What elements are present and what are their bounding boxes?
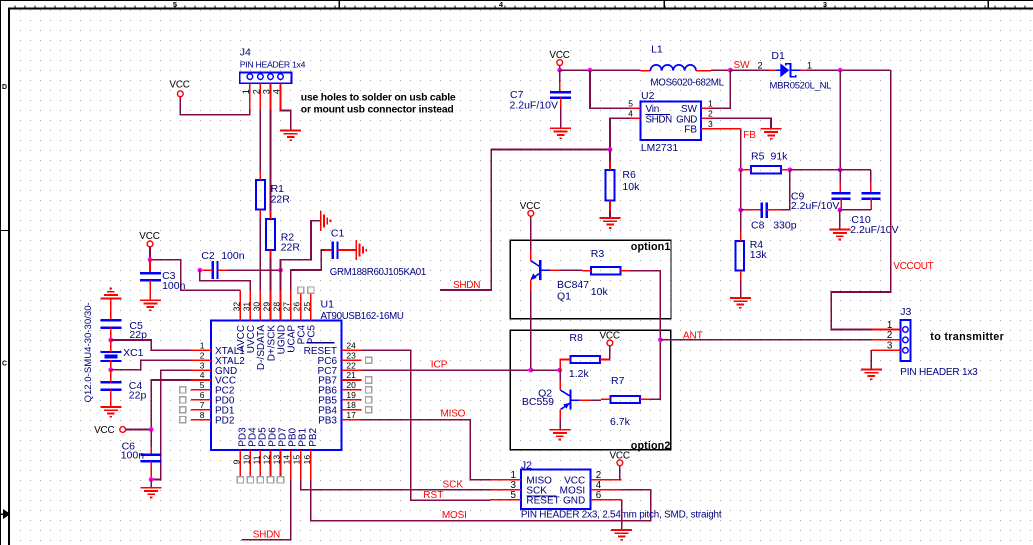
svg-text:31: 31 bbox=[241, 302, 251, 312]
svg-text:BC559: BC559 bbox=[522, 396, 554, 408]
ground at J3 bbox=[861, 369, 882, 379]
svg-text:6.7k: 6.7k bbox=[610, 416, 631, 428]
svg-text:XC1: XC1 bbox=[123, 347, 144, 359]
wire D1 to VCCOUT rail bbox=[806, 69, 890, 71]
power port VCC at C3 bbox=[139, 231, 159, 247]
node VCC C7 junction bbox=[557, 68, 562, 73]
wire R5 left down to C8 bbox=[740, 170, 742, 210]
pin numbers 1 2 3 4 of J4 bbox=[241, 89, 282, 94]
bottom pin names of U1 bbox=[237, 427, 318, 447]
svg-text:C8: C8 bbox=[751, 220, 765, 232]
ground at R4 bbox=[730, 298, 751, 308]
wire VCC to J2 pin 2 bbox=[619, 466, 621, 480]
svg-text:AT90USB162-16MU: AT90USB162-16MU bbox=[321, 311, 404, 322]
pin 2 GND of U2 bbox=[701, 117, 711, 119]
svg-text:2: 2 bbox=[887, 330, 892, 341]
svg-text:SCK: SCK bbox=[443, 480, 464, 491]
no connect squares on U1 bottom pins 9-13 bbox=[237, 477, 283, 483]
ground inverted above C5 bbox=[100, 289, 121, 299]
svg-text:Q12.0-SMU4-30-30/30-: Q12.0-SMU4-30-30/30- bbox=[83, 302, 94, 402]
svg-text:2.2uF/10V: 2.2uF/10V bbox=[791, 200, 839, 212]
wire ICP from U1 pin 22 to option boxes bbox=[361, 369, 530, 371]
node VCC C3 junction bbox=[148, 257, 153, 262]
svg-text:to transmitter: to transmitter bbox=[930, 331, 1004, 343]
resistor R2 bbox=[266, 219, 275, 250]
wire R8 node to Q2 collector bbox=[559, 370, 561, 380]
connector J2 PIN HEADER 2x3 bbox=[521, 470, 591, 509]
pin 4 SHDN of U2 bbox=[630, 117, 640, 119]
svg-text:9: 9 bbox=[231, 459, 241, 464]
svg-text:100n: 100n bbox=[162, 280, 186, 292]
node ANT junction bbox=[658, 337, 663, 342]
top pins 32-25 of U1 bbox=[240, 290, 310, 320]
svg-text:SHDN: SHDN bbox=[253, 529, 280, 540]
capacitor C2 bbox=[213, 261, 218, 279]
node SW junction bbox=[728, 68, 733, 73]
resistor R1 bbox=[256, 180, 265, 210]
node C6 ground junction bbox=[149, 477, 154, 482]
svg-text:Q1: Q1 bbox=[557, 291, 571, 303]
svg-text:14: 14 bbox=[282, 455, 292, 465]
svg-text:13: 13 bbox=[272, 455, 282, 465]
svg-text:100n: 100n bbox=[121, 449, 145, 461]
wire U2 pin 4 to SHDN node bbox=[610, 118, 630, 149]
wire SHDN from U1 pin 14 bbox=[241, 480, 290, 540]
svg-text:5: 5 bbox=[173, 0, 177, 9]
svg-text:6: 6 bbox=[596, 490, 602, 501]
svg-text:ICP: ICP bbox=[431, 359, 448, 370]
wire VCC to R8 bbox=[609, 346, 611, 360]
svg-text:22R: 22R bbox=[281, 242, 301, 254]
svg-text:1: 1 bbox=[241, 89, 251, 94]
svg-text:4: 4 bbox=[272, 89, 282, 94]
left pin numbers of U1 bbox=[200, 341, 205, 420]
power port VCC at J2 bbox=[609, 451, 629, 466]
wire Q1 emitter down to ICP node bbox=[530, 290, 532, 370]
svg-text:GND: GND bbox=[563, 495, 585, 506]
no connect squares on U1 left pins 5-8 bbox=[180, 387, 186, 423]
svg-text:18: 18 bbox=[346, 400, 356, 410]
svg-text:16: 16 bbox=[302, 455, 312, 465]
overline on RESET pin name bbox=[307, 342, 335, 344]
svg-text:option2: option2 bbox=[631, 440, 671, 452]
wire R4 to ground bbox=[740, 281, 742, 298]
svg-text:PB2: PB2 bbox=[308, 427, 319, 446]
ground at J2 bbox=[611, 530, 632, 540]
capacitor C6 bbox=[150, 430, 152, 455]
svg-text:15: 15 bbox=[292, 455, 302, 465]
svg-text:VCC: VCC bbox=[599, 331, 619, 342]
ground at R6 bbox=[600, 218, 621, 228]
svg-text:ANT: ANT bbox=[683, 330, 703, 341]
mcu U1 AT90USB162-16MU body bbox=[211, 320, 342, 450]
svg-text:24: 24 bbox=[346, 341, 356, 351]
svg-text:D: D bbox=[2, 84, 7, 91]
svg-text:27: 27 bbox=[282, 302, 292, 312]
svg-text:C1: C1 bbox=[331, 228, 345, 240]
svg-text:8: 8 bbox=[200, 410, 205, 420]
wire R5 right to C10 corner bbox=[790, 169, 871, 171]
no connect squares on U1 top pins 26 25 bbox=[298, 287, 304, 293]
svg-text:R8: R8 bbox=[569, 332, 583, 344]
pin stubs of Q1 bbox=[530, 251, 532, 261]
wire ANT to J3 pin 2 bbox=[660, 339, 871, 341]
wire L1 to SW node bbox=[711, 69, 731, 71]
svg-text:7: 7 bbox=[200, 400, 205, 410]
node R5 left junction bbox=[738, 167, 743, 172]
svg-text:5: 5 bbox=[511, 490, 517, 501]
svg-text:FB: FB bbox=[684, 125, 697, 136]
svg-text:30: 30 bbox=[251, 302, 261, 312]
wire J4 pin 4 to ground bbox=[281, 110, 291, 131]
node D1 output junction bbox=[838, 68, 843, 73]
resistor R4 bbox=[735, 241, 744, 271]
svg-text:VCC: VCC bbox=[139, 231, 159, 242]
right pin numbers of U1 bbox=[346, 341, 356, 420]
ground at U2 pin 2 bbox=[761, 129, 782, 139]
wire SCK from U1 pin 15 to J2 pin 3 bbox=[301, 480, 490, 490]
svg-text:1: 1 bbox=[200, 341, 205, 351]
wire J2 pin 6 to ground bbox=[621, 500, 623, 530]
pin 5 Vin of U2 bbox=[630, 107, 640, 109]
node C9 bottom junction bbox=[838, 208, 843, 213]
svg-text:2: 2 bbox=[251, 89, 261, 94]
wire to U2 pin 5 Vin bbox=[590, 70, 630, 108]
svg-text:5: 5 bbox=[628, 99, 633, 109]
pin numbers of J2 bbox=[511, 470, 602, 501]
svg-text:25: 25 bbox=[302, 302, 312, 312]
svg-text:PD2: PD2 bbox=[215, 415, 235, 426]
wire Q2 emitter to ground bbox=[559, 419, 561, 430]
svg-text:use holes to solder on usb cab: use holes to solder on usb cable bbox=[301, 92, 456, 103]
svg-text:J2: J2 bbox=[521, 459, 532, 471]
wire C2 right to UGND node bbox=[228, 269, 281, 271]
svg-text:17: 17 bbox=[346, 410, 356, 420]
diode D1 MBR0520L_NL bbox=[770, 69, 776, 71]
box option1 bbox=[510, 240, 671, 319]
wire VCCOUT down right side bbox=[831, 70, 891, 329]
top pin names of U1 bbox=[236, 324, 317, 370]
svg-text:R6: R6 bbox=[622, 169, 636, 181]
svg-text:1.2k: 1.2k bbox=[569, 368, 590, 380]
node UGND junction bbox=[278, 268, 283, 273]
wire VCC to U1 pin 32 AVCC bbox=[150, 260, 240, 291]
wire R4 from C8 node bbox=[740, 210, 742, 231]
ground rotated near C1 bbox=[321, 211, 331, 231]
power port VCC at C6 bbox=[94, 425, 126, 436]
pin names of J2 bbox=[526, 476, 585, 507]
capacitor C1 bbox=[333, 241, 338, 259]
resistor R6 bbox=[606, 170, 615, 200]
svg-text:GRM188R60J105KA01: GRM188R60J105KA01 bbox=[330, 267, 426, 278]
bottom pins 9-16 of U1 bbox=[240, 450, 310, 480]
svg-text:U2: U2 bbox=[641, 90, 655, 102]
capacitor C8 bbox=[741, 209, 744, 211]
svg-text:L1: L1 bbox=[651, 44, 663, 56]
node XC1 bottom junction bbox=[108, 367, 113, 372]
crystal XC1 bbox=[100, 352, 121, 361]
svg-text:J3: J3 bbox=[900, 306, 911, 318]
svg-text:1: 1 bbox=[708, 99, 713, 109]
svg-text:LM2731: LM2731 bbox=[641, 143, 678, 154]
ground at C9 bbox=[829, 230, 850, 240]
svg-text:option1: option1 bbox=[631, 241, 671, 253]
svg-text:RESET: RESET bbox=[526, 495, 559, 506]
svg-text:MISO: MISO bbox=[441, 409, 466, 420]
wire RESET from U1 pin 24 to J2 pin 5 bbox=[361, 350, 490, 500]
svg-text:PC5: PC5 bbox=[307, 324, 318, 344]
svg-text:10k: 10k bbox=[591, 286, 609, 298]
svg-text:RST: RST bbox=[423, 490, 443, 501]
power port VCC at Q1 bbox=[520, 201, 540, 216]
pin 1 SW of U2 bbox=[701, 107, 711, 109]
svg-text:C: C bbox=[2, 361, 7, 368]
svg-text:MOSI: MOSI bbox=[442, 510, 467, 521]
svg-text:21: 21 bbox=[346, 370, 356, 380]
wire U2 FB pin 3 to R5 bbox=[711, 128, 741, 130]
ground at C4 bbox=[100, 407, 121, 417]
svg-text:PIN HEADER 1x3: PIN HEADER 1x3 bbox=[900, 367, 978, 378]
wire U1 pin 27 UCAP to C1 bbox=[291, 250, 332, 290]
wire UGND node to rotated ground bbox=[281, 221, 321, 270]
node C2 left junction bbox=[198, 268, 203, 273]
svg-text:FB: FB bbox=[743, 130, 756, 141]
bottom pin numbers of U1 bbox=[231, 455, 311, 465]
wire VCCOUT rail junctions bbox=[839, 70, 841, 170]
svg-text:19: 19 bbox=[346, 390, 356, 400]
right pins 24-17 of U1 bbox=[341, 350, 361, 419]
svg-text:13k: 13k bbox=[750, 249, 768, 261]
left pins 1-8 of U1 bbox=[191, 350, 211, 419]
svg-text:R5: R5 bbox=[751, 151, 765, 163]
wire J3 pin 3 to ground bbox=[870, 350, 872, 369]
resistor R8 bbox=[571, 356, 601, 363]
node VCC C6 junction bbox=[149, 427, 154, 432]
wire J4 pin 2 to R1 bbox=[259, 110, 261, 173]
svg-text:2: 2 bbox=[200, 350, 205, 360]
inductor L1 bbox=[640, 70, 650, 72]
pin 3 of J3 bbox=[871, 349, 900, 351]
pin 3 FB of U2 bbox=[701, 128, 711, 130]
svg-text:MOS6020-682ML: MOS6020-682ML bbox=[650, 78, 724, 89]
pin 1 of J4 bbox=[249, 83, 251, 109]
pin 3 of J4 bbox=[270, 83, 272, 109]
wire Q2 base to R7 bbox=[590, 399, 601, 401]
svg-text:23: 23 bbox=[346, 350, 356, 360]
svg-text:VCC: VCC bbox=[549, 50, 569, 61]
power port VCC at J4 pin 1 bbox=[169, 80, 189, 97]
svg-text:4: 4 bbox=[200, 370, 205, 380]
node SHDN R6 junction bbox=[608, 147, 613, 152]
wire VCC to J4 pin 1 bbox=[180, 97, 250, 115]
right pins 2 4 6 of J2 bbox=[591, 480, 622, 500]
no connect squares on U1 right pins 23 21 20 19 18 bbox=[366, 357, 372, 413]
svg-text:PB3: PB3 bbox=[318, 415, 337, 426]
node R5 right junction bbox=[787, 167, 792, 172]
svg-text:3: 3 bbox=[823, 0, 827, 9]
svg-text:26: 26 bbox=[292, 302, 302, 312]
svg-text:3: 3 bbox=[887, 341, 893, 352]
ground at C3 bbox=[140, 300, 161, 310]
svg-text:22R: 22R bbox=[271, 193, 291, 205]
pin 4 of J4 bbox=[280, 83, 282, 109]
connector J4 PIN HEADER 1x4 bbox=[240, 72, 292, 83]
pin stubs of Q2 bbox=[559, 380, 561, 390]
ground at J4 pin 4 bbox=[280, 130, 301, 140]
svg-text:6: 6 bbox=[200, 390, 205, 400]
svg-text:5: 5 bbox=[200, 380, 205, 390]
svg-text:BC847: BC847 bbox=[557, 279, 589, 291]
transistor Q2 BC559 bbox=[561, 390, 580, 410]
svg-text:2: 2 bbox=[757, 60, 762, 70]
wire VCC to U1 VCC pin 4 bbox=[126, 380, 191, 430]
svg-text:91k: 91k bbox=[771, 151, 789, 163]
svg-text:330p: 330p bbox=[773, 220, 797, 232]
node R8 Q2 junction bbox=[557, 368, 562, 373]
wire SW node to D1 bbox=[730, 69, 769, 71]
svg-text:12: 12 bbox=[262, 455, 272, 465]
node ICP Q1 junction bbox=[528, 368, 533, 373]
left pin names of U1 bbox=[215, 346, 245, 426]
wire U1 GND pin 3 to C6 node bbox=[151, 370, 191, 479]
wire SW node to U2 pin 1 bbox=[711, 70, 731, 108]
capacitor C7 bbox=[559, 70, 561, 82]
svg-text:VCC: VCC bbox=[609, 451, 629, 462]
svg-text:VCC: VCC bbox=[94, 425, 114, 436]
svg-text:1: 1 bbox=[807, 60, 812, 70]
wire R6 to ground bbox=[609, 210, 611, 218]
svg-text:100n: 100n bbox=[221, 250, 245, 262]
transistor Q1 BC847 bbox=[530, 260, 550, 280]
top pin numbers of U1 bbox=[231, 302, 311, 312]
overline on SHDN pin name bbox=[646, 114, 671, 116]
pin 2 of J4 bbox=[259, 83, 261, 109]
svg-text:10: 10 bbox=[241, 455, 251, 465]
capacitor C5 bbox=[100, 320, 121, 327]
resistor R3 bbox=[591, 267, 621, 274]
wire C10 bottom to C9 node bbox=[840, 209, 871, 211]
svg-text:29: 29 bbox=[262, 302, 272, 312]
wire VCC rail to L1 bbox=[560, 69, 641, 71]
svg-text:U1: U1 bbox=[321, 299, 335, 311]
wire MOSI from U1 pin 16 to J2 pin 4 bbox=[311, 480, 651, 521]
wire MISO from U1 pin 17 to J2 pin 1 bbox=[361, 420, 490, 480]
svg-text:20: 20 bbox=[346, 380, 356, 390]
svg-text:R7: R7 bbox=[611, 375, 625, 387]
svg-text:C2: C2 bbox=[201, 250, 215, 262]
wire ICP node to R8 node bbox=[531, 369, 560, 371]
svg-text:SHDN: SHDN bbox=[453, 280, 480, 291]
svg-text:22p: 22p bbox=[129, 390, 147, 402]
svg-text:VCCOUT: VCCOUT bbox=[893, 261, 933, 272]
svg-text:R3: R3 bbox=[591, 248, 605, 260]
svg-text:SHDN: SHDN bbox=[646, 114, 673, 125]
node U2 Vin junction bbox=[588, 68, 593, 73]
capacitor C3 bbox=[149, 260, 151, 273]
box option2 bbox=[510, 330, 670, 450]
wire C2 left to U1 pin 31 UVCC bbox=[200, 270, 251, 290]
wire VCC to Q1 collector bbox=[530, 216, 532, 250]
wire XC1 top to U1 XTAL1 bbox=[111, 340, 191, 350]
svg-text:3: 3 bbox=[200, 360, 205, 370]
svg-text:3: 3 bbox=[262, 89, 272, 94]
wire R7 to ANT node bbox=[649, 340, 660, 400]
wire XC1 bottom to U1 XTAL2 bbox=[111, 360, 191, 370]
power port VCC top bbox=[549, 50, 569, 66]
pin 1 of J3 bbox=[871, 329, 900, 331]
capacitor C9 bbox=[839, 170, 841, 183]
svg-text:VCC: VCC bbox=[169, 80, 189, 91]
resistor R7 bbox=[611, 396, 641, 403]
wire C8 right up to R5 right bbox=[781, 170, 790, 210]
svg-text:MBR0520L_NL: MBR0520L_NL bbox=[770, 81, 832, 92]
svg-text:10k: 10k bbox=[622, 181, 640, 193]
left pins 1 3 5 of J2 bbox=[490, 480, 521, 500]
wire C9 to ground bbox=[839, 210, 841, 230]
wire J4 pin 3 to R2 bbox=[270, 110, 272, 212]
svg-text:32: 32 bbox=[231, 302, 241, 312]
connector J3 PIN HEADER 1x3 bbox=[900, 320, 910, 361]
capacitor C10 bbox=[870, 170, 872, 183]
svg-text:2.2uF/10V: 2.2uF/10V bbox=[510, 99, 558, 111]
node C8 left junction bbox=[738, 208, 743, 213]
svg-text:or mount usb connector instead: or mount usb connector instead bbox=[301, 105, 454, 116]
wire Q1 base to R3 bbox=[560, 269, 582, 271]
power port VCC at R8 bbox=[599, 331, 619, 346]
overline on J2 RESET name bbox=[526, 495, 556, 497]
right pin names of U1 bbox=[304, 346, 338, 426]
ground rotated at C1 bbox=[356, 240, 366, 260]
svg-text:2: 2 bbox=[708, 109, 713, 119]
svg-text:J4: J4 bbox=[240, 47, 251, 59]
wire R1 to U1 pin 30 bbox=[259, 217, 261, 290]
wire C3 to ground bbox=[149, 280, 151, 300]
svg-text:3: 3 bbox=[708, 119, 713, 129]
resistor R5 bbox=[751, 166, 781, 173]
node XC1 top junction bbox=[108, 338, 113, 343]
svg-text:VCC: VCC bbox=[520, 201, 540, 212]
wire SHDN net to U2 pin 4 node bbox=[440, 150, 610, 291]
regulator U2 LM2731 body bbox=[640, 101, 701, 140]
ground at C6 bbox=[141, 488, 162, 498]
svg-text:4: 4 bbox=[628, 109, 633, 119]
wire R3 to ANT node bbox=[629, 271, 660, 340]
wire R2 to U1 pin 29 bbox=[270, 258, 272, 290]
wire UGND node to U1 pin 28 bbox=[280, 270, 282, 290]
svg-text:11: 11 bbox=[251, 455, 261, 464]
wire U2 GND pin 2 to ground bbox=[711, 118, 771, 128]
node C9 top junction bbox=[838, 167, 843, 172]
svg-text:28: 28 bbox=[272, 302, 282, 312]
ground at Q2 bbox=[549, 430, 570, 440]
capacitor C4 bbox=[100, 382, 121, 389]
svg-text:PIN HEADER 1x4: PIN HEADER 1x4 bbox=[240, 60, 306, 70]
svg-text:D1: D1 bbox=[771, 50, 785, 62]
pin 2 of J3 bbox=[871, 339, 900, 341]
svg-text:22: 22 bbox=[346, 360, 356, 370]
ground at C7 bbox=[550, 128, 571, 138]
